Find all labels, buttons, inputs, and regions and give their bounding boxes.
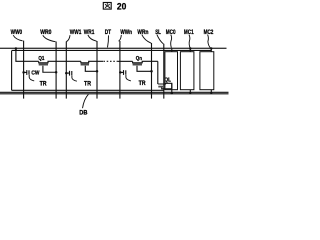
wire: DT tap vertical to cell 1 channel — [16, 49, 39, 62]
leader MC0 — [170, 35, 173, 48]
wire: MC0 column top stub — [171, 48, 173, 51]
node: MC1 on DT — [189, 47, 191, 49]
node: storage dot cell n on WWn — [119, 71, 122, 74]
leader SL — [157, 35, 164, 44]
word line WW0 — [23, 41, 25, 99]
wire: MC2 top stub — [210, 48, 212, 51]
wire: source return line — [12, 89, 164, 91]
node: storage dot cell 2 on WW1 — [65, 72, 68, 75]
figure title 図 20 — [103, 0, 126, 11]
data bus DB bottom line — [0, 93, 229, 95]
wire: dashed continuation of channel — [103, 60, 117, 62]
transistor Q1 gate bar — [39, 63, 48, 65]
memory block MC2 box — [200, 52, 214, 90]
word line WR1 — [96, 41, 98, 99]
word line WR0 — [55, 42, 57, 99]
svg-text:QL: QL — [164, 77, 171, 83]
transistor Qn gate lead — [137, 66, 152, 72]
wire: second horizontal under DT bus — [12, 49, 212, 51]
leader TR cell n — [126, 75, 131, 81]
svg-text:TR: TR — [84, 80, 91, 87]
wire: MC0 column bottom stub — [171, 83, 173, 93]
svg-text:WW0: WW0 — [11, 29, 23, 36]
node: MC2 on DB — [210, 92, 212, 94]
svg-text:TR: TR — [40, 80, 47, 87]
leader WWn — [119, 35, 122, 41]
transistor QL gate bar — [158, 86, 165, 88]
leader WR0 — [43, 35, 56, 42]
leader WRn — [142, 35, 151, 44]
wire: channel elbow down to load — [157, 61, 159, 84]
node: Qn gate on WRn — [150, 70, 153, 73]
leader WW0 — [13, 35, 22, 41]
transistor Q1 channel dip — [39, 61, 81, 62]
leader MC2 — [208, 35, 211, 49]
transistor Qn channel dip — [133, 61, 158, 62]
leader WW1 — [66, 35, 70, 42]
wire: channel into cell n — [118, 60, 133, 62]
data bus DB top line — [0, 91, 229, 93]
capacitor CW cell n — [120, 71, 123, 73]
svg-text:WW1: WW1 — [70, 29, 82, 36]
node: MC0 on DB — [171, 92, 173, 94]
memory block MC0 box — [165, 52, 178, 90]
svg-text:WWn: WWn — [120, 29, 132, 36]
wire: left bracket vertical (x=11.6) — [11, 51, 13, 91]
wire: QL gate lead to MC0 column — [162, 88, 172, 89]
node: Q2 gate on WR1 — [96, 70, 99, 73]
leader TR cell 1 — [29, 75, 34, 81]
svg-text:DT: DT — [105, 29, 112, 36]
svg-text:TR: TR — [139, 80, 146, 87]
transistor Q2 gate bar — [81, 63, 89, 65]
node: Q1 gate on WR0 — [55, 71, 58, 74]
svg-text:WR1: WR1 — [84, 29, 95, 36]
wire: MC2 bottom stub — [210, 90, 212, 93]
word line WWn — [119, 41, 121, 99]
memory block MC1 box — [180, 52, 194, 90]
leader DB — [83, 94, 89, 108]
leader TR cell 2 — [72, 76, 77, 82]
svg-text:WRn: WRn — [137, 29, 148, 36]
svg-text:MC2: MC2 — [204, 29, 214, 36]
capacitor CW cell 1 — [24, 71, 27, 73]
node: MC1 on DB — [189, 92, 191, 94]
transistor Qn gate bar — [133, 63, 142, 65]
transistor Q2 gate lead — [85, 66, 97, 72]
svg-text:WR0: WR0 — [40, 29, 52, 36]
svg-text:Qn: Qn — [136, 56, 143, 62]
leader MC1 — [189, 35, 190, 48]
node: MC2 on DT — [210, 47, 212, 49]
node: DT tap dot cell 1 — [15, 47, 18, 50]
leader DT — [108, 35, 109, 47]
transistor Q1 gate lead — [43, 66, 56, 72]
svg-text:20: 20 — [117, 0, 126, 11]
leader WR1 — [88, 35, 97, 41]
wire: data line DT bus (top horizontal) — [0, 47, 227, 49]
transistor Q2 channel dip — [81, 61, 103, 62]
wire: MC1 bottom stub — [189, 90, 191, 93]
source line SL — [163, 44, 165, 99]
word line WRn — [151, 43, 153, 99]
node: storage dot cell 1 on WW0 — [22, 71, 25, 74]
svg-text:SL: SL — [155, 29, 161, 36]
wire: MC1 top stub — [189, 48, 191, 51]
capacitor CW cell 2 — [66, 72, 69, 74]
svg-text:CW: CW — [31, 71, 39, 77]
word line WW1 — [65, 42, 67, 99]
svg-text:Q1: Q1 — [38, 56, 45, 62]
svg-text:DB: DB — [79, 110, 88, 117]
transistor QL channel — [158, 83, 172, 89]
